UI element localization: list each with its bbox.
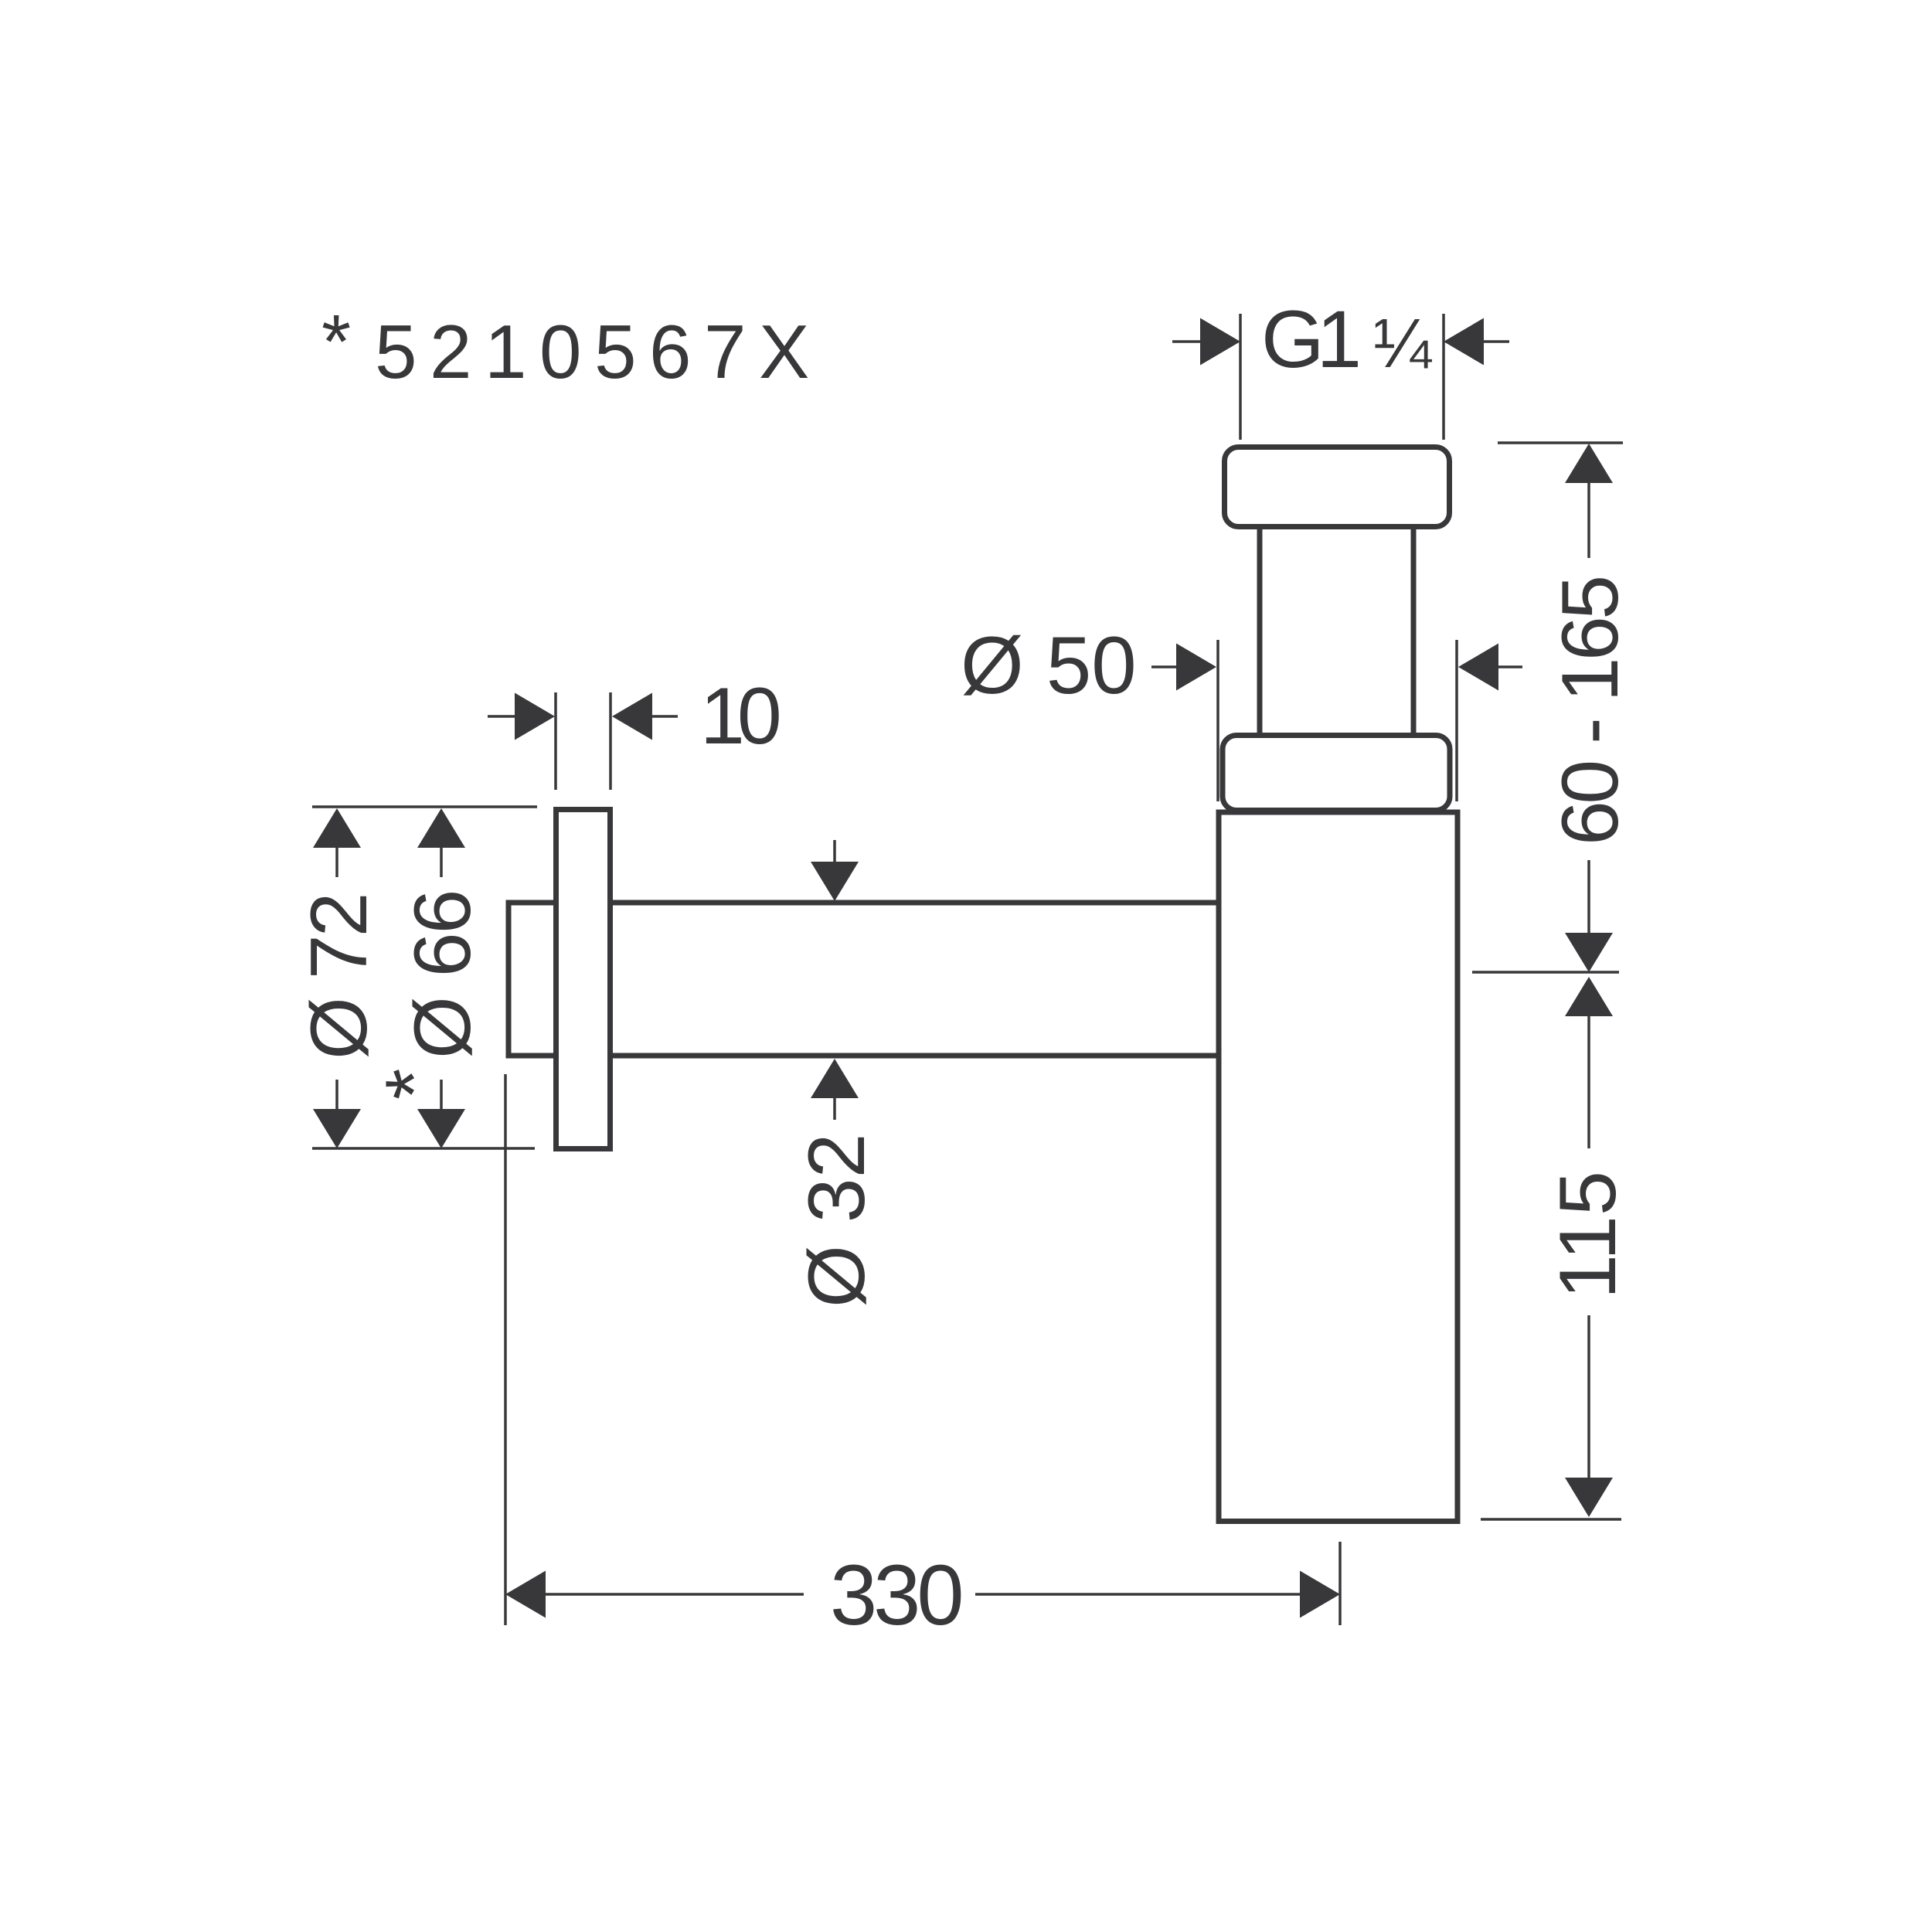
svg-text:Ø 32: Ø 32 <box>792 1134 882 1308</box>
dimension D50 (body diameter) <box>961 621 1522 801</box>
svg-text:Ø 72: Ø 72 <box>294 895 384 1060</box>
flange plate <box>556 810 611 1149</box>
top G1 1/4 nut <box>1225 447 1450 527</box>
horizontal pipe bottom wire <box>611 1053 1221 1059</box>
dimension 330 (projection) <box>505 1074 1340 1643</box>
svg-text:Ø 66: Ø 66 <box>398 891 488 1059</box>
svg-text:330: 330 <box>830 1548 961 1643</box>
svg-text:60 - 165: 60 - 165 <box>1546 578 1635 845</box>
tailpipe left wire <box>1257 526 1263 738</box>
svg-text:G1: G1 <box>1261 294 1359 385</box>
dimension D72 (flange outer) <box>294 807 537 1148</box>
svg-text:10: 10 <box>700 672 779 761</box>
dimension D66 (starred) <box>369 808 488 1148</box>
dimension 10 (flange thickness) <box>488 672 779 790</box>
horizontal pipe top wire <box>611 900 1221 906</box>
dimension G1 1/4 (thread) <box>1172 294 1509 440</box>
svg-text:¼: ¼ <box>1373 305 1433 383</box>
tailpipe right wire <box>1411 526 1417 738</box>
trap body cylinder <box>1219 812 1458 1522</box>
svg-text:*: * <box>321 299 351 384</box>
dimension 60-165 (adjustable height) <box>1472 443 1635 972</box>
svg-text:115: 115 <box>1543 1171 1633 1299</box>
svg-text:*: * <box>369 1069 459 1100</box>
article number text <box>321 299 822 394</box>
svg-text:Ø 50: Ø 50 <box>961 621 1137 711</box>
lower union nut <box>1223 736 1450 811</box>
dimension D32 (pipe diameter) <box>792 840 882 1308</box>
wall-side pipe stub <box>509 903 556 1056</box>
svg-text:5210567X: 5210567X <box>375 309 822 394</box>
dimension 115 (body height) <box>1481 977 1633 1519</box>
